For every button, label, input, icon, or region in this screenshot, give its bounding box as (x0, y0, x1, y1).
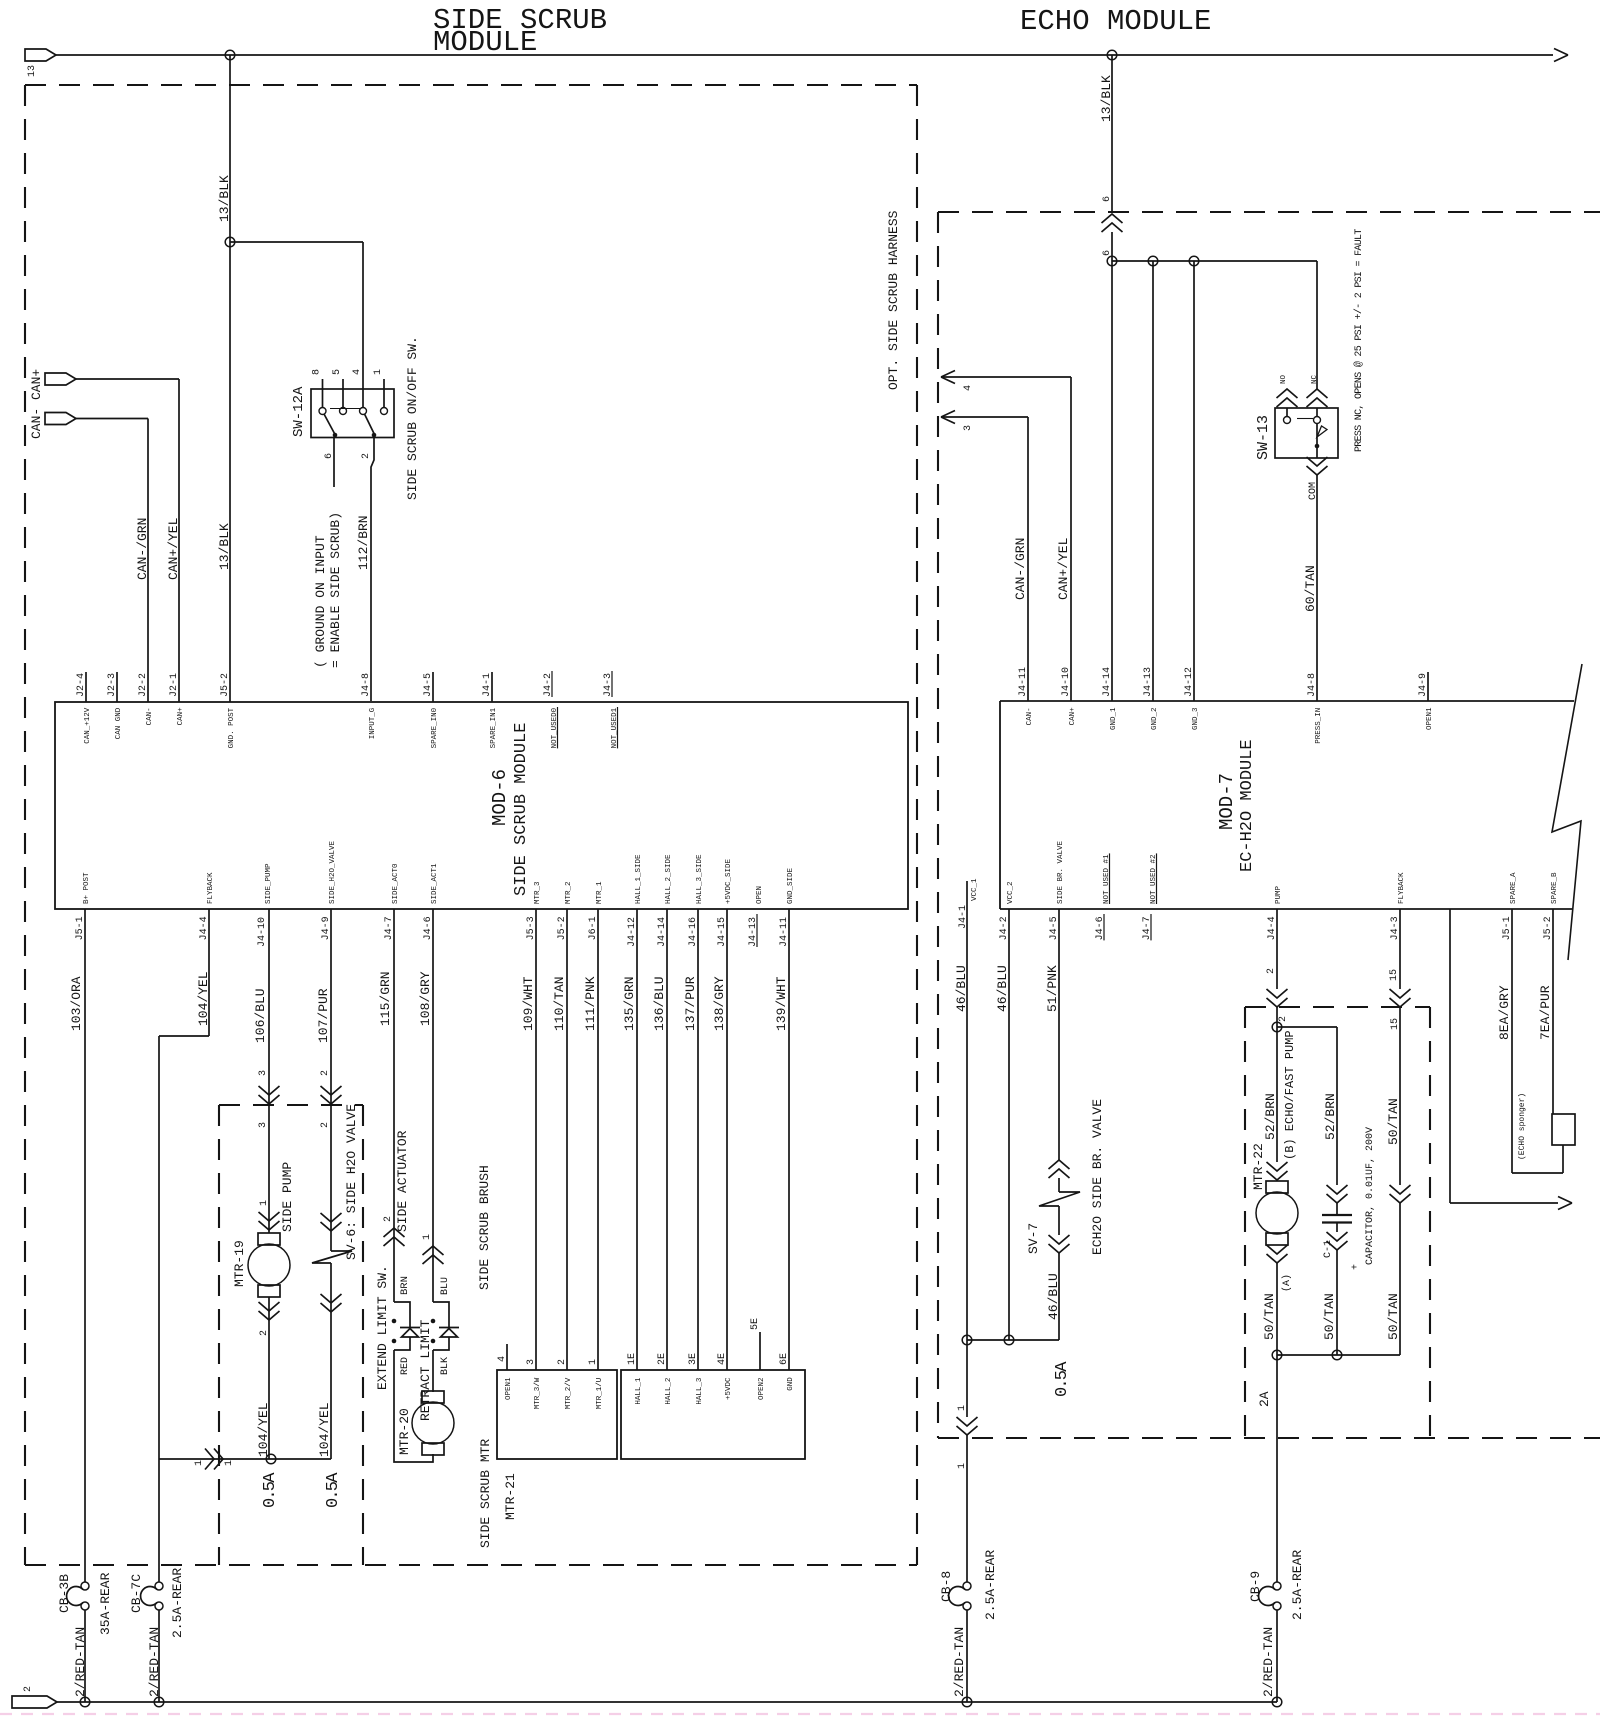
svg-text:CAN-/GRN: CAN-/GRN (135, 518, 150, 580)
svg-text:137/PUR: 137/PUR (683, 976, 698, 1031)
svg-text:GND_1: GND_1 (1110, 707, 1118, 730)
svg-text:MTR-21: MTR-21 (503, 1473, 518, 1520)
svg-text:1E: 1E (627, 1353, 638, 1365)
svg-text:46/BLU: 46/BLU (1046, 1273, 1061, 1320)
svg-text:2.5A-REAR: 2.5A-REAR (170, 1568, 185, 1638)
svg-text:FLYBACK: FLYBACK (1398, 872, 1406, 904)
svg-text:115/GRN: 115/GRN (378, 971, 393, 1026)
svg-text:PUMP: PUMP (1275, 885, 1283, 904)
svg-text:VCC_2: VCC_2 (1007, 881, 1015, 904)
svg-text:CAN GND: CAN GND (115, 707, 123, 739)
svg-text:CAN- CAN+: CAN- CAN+ (29, 369, 44, 439)
svg-text:136/BLU: 136/BLU (652, 976, 667, 1031)
svg-text:CB-7C: CB-7C (129, 1574, 144, 1613)
svg-text:0.5A: 0.5A (324, 1472, 343, 1508)
svg-text:= ENABLE SIDE SCRUB): = ENABLE SIDE SCRUB) (328, 512, 343, 668)
svg-text:SIDE ACTUATOR: SIDE ACTUATOR (395, 1130, 410, 1232)
svg-text:50/TAN: 50/TAN (1386, 1098, 1401, 1145)
svg-text:OPEN1: OPEN1 (1426, 707, 1434, 730)
svg-text:MOD-7: MOD-7 (1216, 773, 1238, 830)
svg-text:SIDE SCRUB ON/OFF SW.: SIDE SCRUB ON/OFF SW. (405, 336, 420, 500)
svg-text:OPEN2: OPEN2 (758, 1377, 766, 1400)
svg-text:2/RED-TAN: 2/RED-TAN (952, 1627, 967, 1697)
svg-text:60/TAN: 60/TAN (1303, 565, 1318, 612)
svg-text:1: 1 (373, 369, 384, 375)
svg-text:2: 2 (383, 1216, 394, 1222)
svg-text:SIDE_ACT1: SIDE_ACT1 (431, 863, 439, 904)
svg-text:MOD-6: MOD-6 (489, 769, 511, 826)
svg-text:13/BLK: 13/BLK (217, 523, 232, 570)
svg-text:6: 6 (1102, 196, 1113, 202)
svg-text:HALL_3: HALL_3 (696, 1377, 704, 1405)
svg-text:2.5A-REAR: 2.5A-REAR (983, 1550, 998, 1620)
svg-text:SIDE_ACT0: SIDE_ACT0 (392, 863, 400, 904)
svg-text:GND: GND (787, 1377, 795, 1391)
svg-text:+: + (1351, 1264, 1362, 1270)
svg-text:MTR-19: MTR-19 (232, 1240, 247, 1287)
svg-text:111/PNK: 111/PNK (583, 976, 598, 1031)
svg-text:4: 4 (352, 369, 363, 375)
svg-text:3: 3 (258, 1122, 269, 1128)
svg-text:2/RED-TAN: 2/RED-TAN (73, 1627, 88, 1697)
svg-text:1: 1 (224, 1460, 235, 1466)
svg-text:CAN-: CAN- (1026, 707, 1034, 725)
svg-text:HALL_3_SIDE: HALL_3_SIDE (696, 854, 704, 904)
svg-text:7EA/PUR: 7EA/PUR (1538, 985, 1553, 1040)
svg-text:138/GRY: 138/GRY (712, 976, 727, 1031)
svg-text:SIDE BR. VALVE: SIDE BR. VALVE (1057, 840, 1065, 904)
svg-text:5: 5 (332, 369, 343, 375)
svg-text:CAN-: CAN- (146, 707, 154, 725)
svg-text:3E: 3E (688, 1353, 699, 1365)
svg-text:MTR_3: MTR_3 (534, 881, 542, 904)
svg-text:8: 8 (312, 369, 323, 375)
svg-text:2: 2 (557, 1359, 568, 1365)
svg-text:GND. POST: GND. POST (228, 707, 236, 748)
svg-text:2/RED-TAN: 2/RED-TAN (1261, 1627, 1276, 1697)
svg-text:(ECHO sponger): (ECHO sponger) (1518, 1093, 1527, 1160)
svg-text:OPEN1: OPEN1 (505, 1377, 513, 1400)
svg-text:109/WHT: 109/WHT (521, 976, 536, 1031)
svg-text:1: 1 (422, 1234, 433, 1240)
svg-text:HALL_1: HALL_1 (635, 1377, 643, 1405)
svg-text:B+ POST: B+ POST (83, 872, 91, 904)
svg-text:112/BRN: 112/BRN (356, 515, 371, 570)
svg-text:GND_2: GND_2 (1151, 707, 1159, 730)
svg-text:SIDE_H2O_VALVE: SIDE_H2O_VALVE (329, 840, 337, 904)
svg-text:SPARE_IN1: SPARE_IN1 (490, 707, 498, 748)
svg-text:6: 6 (324, 453, 335, 459)
svg-text:SIDE SCRUB MTR: SIDE SCRUB MTR (478, 1439, 493, 1548)
svg-text:VCC_1: VCC_1 (971, 878, 979, 901)
svg-text:52/BRN: 52/BRN (1323, 1093, 1338, 1140)
svg-text:CAN-/GRN: CAN-/GRN (1013, 538, 1028, 600)
svg-text:13/BLK: 13/BLK (217, 175, 232, 222)
svg-text:108/GRY: 108/GRY (418, 971, 433, 1026)
svg-text:139/WHT: 139/WHT (774, 976, 789, 1031)
svg-text:13/BLK: 13/BLK (1099, 75, 1114, 122)
svg-text:2: 2 (320, 1070, 331, 1076)
svg-text:MTR-20: MTR-20 (397, 1408, 412, 1455)
svg-text:MTR-22: MTR-22 (1251, 1143, 1266, 1190)
svg-text:50/TAN: 50/TAN (1322, 1293, 1337, 1340)
svg-text:HALL_2: HALL_2 (665, 1378, 673, 1405)
svg-text:5E: 5E (750, 1318, 761, 1330)
svg-text:NC: NC (1311, 374, 1319, 384)
svg-text:3: 3 (258, 1070, 269, 1076)
svg-text:110/TAN: 110/TAN (552, 976, 567, 1031)
svg-text:(B) ECHO/FAST PUMP: (B) ECHO/FAST PUMP (1283, 1030, 1297, 1160)
svg-text:GND_SIDE: GND_SIDE (787, 867, 795, 904)
svg-text:2: 2 (23, 1686, 34, 1692)
svg-text:MTR_2: MTR_2 (565, 881, 573, 904)
svg-text:EC-H2O MODULE: EC-H2O MODULE (1238, 739, 1257, 872)
svg-text:3: 3 (526, 1359, 537, 1365)
svg-text:MTR_3/W: MTR_3/W (534, 1377, 542, 1409)
svg-text:CAN+: CAN+ (1069, 707, 1077, 726)
svg-text:CB-3B: CB-3B (57, 1574, 72, 1613)
svg-text:PRESS NC, OPENS @ 25 PSI +/- 2: PRESS NC, OPENS @ 25 PSI +/- 2 PSI = FAU… (1353, 229, 1365, 452)
svg-text:+5VDC_SIDE: +5VDC_SIDE (725, 858, 733, 904)
svg-text:103/ORA: 103/ORA (69, 976, 84, 1031)
svg-text:J4-1: J4-1 (958, 905, 969, 929)
svg-text:SW-13: SW-13 (1255, 415, 1272, 460)
svg-text:+5VDC: +5VDC (725, 1377, 733, 1400)
svg-text:MTR_2/V: MTR_2/V (565, 1377, 573, 1409)
svg-text:SIDE SCRUB MODULE: SIDE SCRUB MODULE (512, 723, 531, 896)
svg-text:35A-REAR: 35A-REAR (98, 1572, 113, 1635)
svg-text:SIDE_PUMP: SIDE_PUMP (265, 863, 273, 904)
svg-text:OPT. SIDE SCRUB HARNESS: OPT. SIDE SCRUB HARNESS (886, 210, 901, 390)
svg-text:2: 2 (361, 453, 372, 459)
svg-text:1: 1 (957, 1405, 968, 1411)
svg-text:J4-10: J4-10 (257, 917, 268, 947)
svg-text:2.5A-REAR: 2.5A-REAR (1290, 1550, 1305, 1620)
svg-text:OPEN: OPEN (756, 886, 764, 904)
svg-text:BLK: BLK (440, 1357, 451, 1375)
svg-text:50/TAN: 50/TAN (1262, 1293, 1277, 1340)
svg-text:2/RED-TAN: 2/RED-TAN (147, 1627, 162, 1697)
svg-text:( GROUND ON INPUT: ( GROUND ON INPUT (313, 535, 328, 668)
svg-text:8EA/GRY: 8EA/GRY (1497, 985, 1512, 1040)
svg-text:CAN+: CAN+ (177, 707, 185, 726)
svg-text:CAN+/YEL: CAN+/YEL (166, 518, 181, 580)
svg-text:6: 6 (1102, 250, 1113, 256)
svg-text:2: 2 (259, 1330, 270, 1336)
svg-text:CAN_+12V: CAN_+12V (84, 707, 92, 744)
svg-text:2: 2 (1278, 1016, 1289, 1022)
svg-text:52/BRN: 52/BRN (1263, 1093, 1278, 1140)
svg-text:106/BLU: 106/BLU (253, 988, 268, 1043)
svg-text:SPARE_B: SPARE_B (1551, 872, 1559, 904)
svg-text:15: 15 (1389, 969, 1400, 981)
svg-text:4: 4 (963, 385, 974, 391)
svg-text:HALL_1_SIDE: HALL_1_SIDE (635, 854, 643, 904)
svg-text:SV-6: SIDE H2O VALVE: SV-6: SIDE H2O VALVE (344, 1104, 359, 1260)
svg-text:PRESS_IN: PRESS_IN (1315, 708, 1323, 744)
svg-text:1: 1 (259, 1200, 270, 1206)
svg-text:HALL_2_SIDE: HALL_2_SIDE (665, 854, 673, 904)
svg-text:107/PUR: 107/PUR (316, 988, 331, 1043)
svg-text:MTR_1/U: MTR_1/U (596, 1378, 604, 1410)
svg-text:6E: 6E (779, 1353, 790, 1365)
svg-text:1: 1 (194, 1460, 205, 1466)
svg-text:2A: 2A (1257, 1391, 1272, 1407)
svg-text:CB-9: CB-9 (1248, 1571, 1263, 1602)
svg-text:MTR_1: MTR_1 (596, 881, 604, 904)
svg-text:51/PNK: 51/PNK (1045, 965, 1060, 1012)
svg-text:(A): (A) (1281, 1274, 1293, 1292)
svg-text:RED: RED (400, 1357, 411, 1375)
svg-text:4: 4 (497, 1356, 508, 1362)
svg-text:NO: NO (1280, 374, 1288, 384)
svg-text:CAN+/YEL: CAN+/YEL (1056, 538, 1071, 600)
svg-text:EXTEND LIMIT SW.: EXTEND LIMIT SW. (375, 1265, 390, 1390)
svg-text:135/GRN: 135/GRN (622, 976, 637, 1031)
svg-text:BLU: BLU (440, 1277, 451, 1295)
svg-text:0.5A: 0.5A (1053, 1361, 1072, 1397)
svg-text:ECHO MODULE: ECHO MODULE (1020, 5, 1211, 38)
svg-text:C-1: C-1 (1323, 1240, 1334, 1258)
svg-text:50/TAN: 50/TAN (1386, 1293, 1401, 1340)
svg-text:CB-8: CB-8 (939, 1571, 954, 1602)
svg-text:SPARE_A: SPARE_A (1510, 872, 1518, 904)
svg-text:0.5A: 0.5A (261, 1472, 280, 1508)
svg-text:SIDE SCRUB BRUSH: SIDE SCRUB BRUSH (477, 1165, 492, 1290)
svg-text:GND_3: GND_3 (1192, 707, 1200, 730)
svg-text:CAPACITOR, 0.01UF, 200V: CAPACITOR, 0.01UF, 200V (1365, 1127, 1376, 1265)
svg-text:FLYBACK: FLYBACK (207, 872, 215, 904)
svg-text:MODULE: MODULE (433, 26, 537, 59)
svg-text:104/YEL: 104/YEL (317, 1402, 332, 1457)
svg-text:SW-12A: SW-12A (291, 386, 307, 437)
svg-text:46/BLU: 46/BLU (954, 965, 969, 1012)
svg-text:4E: 4E (717, 1353, 728, 1365)
svg-text:SIDE PUMP: SIDE PUMP (280, 1162, 295, 1232)
svg-text:BRN: BRN (399, 1276, 411, 1295)
svg-text:2: 2 (320, 1122, 331, 1128)
svg-text:ECH2O SIDE BR. VALVE: ECH2O SIDE BR. VALVE (1090, 1099, 1105, 1255)
svg-text:104/YEL: 104/YEL (196, 971, 211, 1026)
svg-text:2: 2 (1266, 968, 1277, 974)
svg-text:1: 1 (588, 1359, 599, 1365)
svg-text:13: 13 (27, 65, 38, 77)
svg-text:2E: 2E (657, 1353, 668, 1365)
svg-text:3: 3 (963, 425, 974, 431)
svg-text:46/BLU: 46/BLU (995, 965, 1010, 1012)
svg-text:SPARE_IN0: SPARE_IN0 (431, 707, 439, 748)
svg-text:SV-7: SV-7 (1026, 1223, 1041, 1254)
svg-text:INPUT_G: INPUT_G (369, 707, 377, 739)
